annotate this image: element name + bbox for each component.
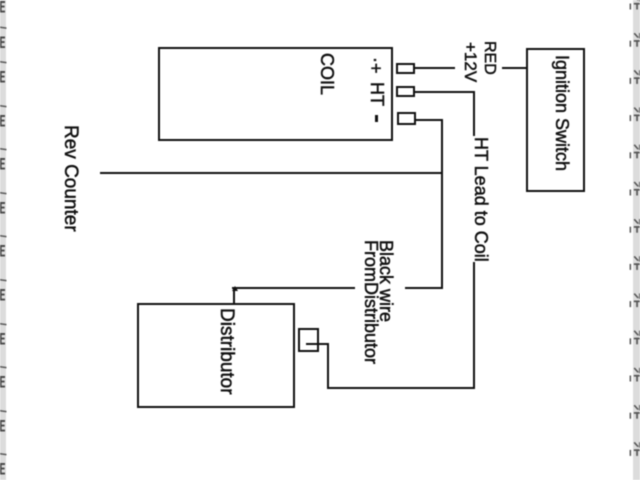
label HT Lead to Coil [472,137,490,262]
label +12V [462,42,479,82]
wire black vertical drop [441,119,443,289]
label FromDistributor [362,240,380,364]
ignition switch body [526,48,585,192]
wire HT lead bottom run [327,387,475,389]
junction arrow at distributor node [232,286,238,291]
wire HT lead vertical upper [473,92,475,136]
wire black from coil - terminal [416,119,443,121]
coil body [158,47,393,141]
wire distributor connector stub [306,343,329,345]
terminal + lug [396,63,415,74]
label - terminal [375,115,378,122]
distributor body [137,303,295,408]
distributor side connector [298,328,319,352]
wire rev-counter feed [100,172,443,174]
wire black drop into distributor [233,288,235,304]
terminal HT lug [396,86,415,97]
wire distributor connector riser [327,343,329,389]
label Ignition Switch [553,55,571,171]
label Rev Counter [61,125,80,232]
wire black horizontal run left [232,287,355,289]
wire HT lead from coil HT terminal [415,91,475,93]
terminal - lug [397,112,416,125]
wire +12V to ignition switch [502,67,527,69]
label Distributor [217,308,236,395]
wire +12V from coil + terminal [415,67,455,69]
wire HT lead vertical lower [473,262,475,389]
label + terminal [367,57,385,74]
label RED [481,41,497,75]
label COIL [318,53,336,95]
label HT terminal [368,82,386,106]
wire black horizontal run right [405,287,443,289]
label Black wire [377,240,395,322]
